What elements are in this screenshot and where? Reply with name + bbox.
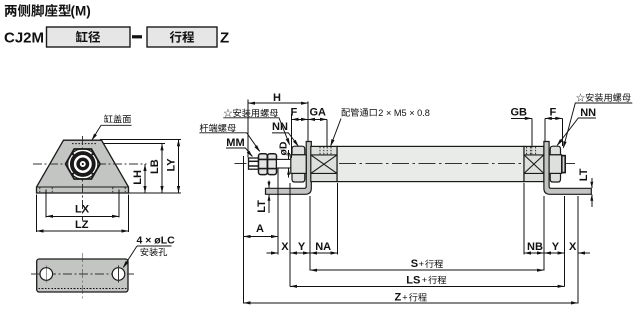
LY extension top xyxy=(100,138,181,140)
cap face dotted line xyxy=(72,143,96,145)
label 安装用螺母 right + leader xyxy=(576,93,630,102)
svg-text:GA: GA xyxy=(310,106,327,118)
svg-text:(M): (M) xyxy=(71,4,91,19)
svg-text:X: X xyxy=(281,241,289,253)
piston rod thread MM xyxy=(249,158,259,169)
foot plate top view xyxy=(37,259,128,292)
dim GB xyxy=(531,118,533,146)
dim LX xyxy=(46,215,119,217)
svg-text:GB: GB xyxy=(511,106,528,118)
mounting nut hexagon xyxy=(66,149,100,179)
port holes left (dotted) xyxy=(320,147,331,155)
foot bracket front view body xyxy=(37,140,129,193)
dim F left xyxy=(291,114,293,158)
port holes right (dotted) xyxy=(527,147,536,155)
dash separator xyxy=(132,35,142,38)
dim S+stroke xyxy=(310,269,544,271)
label 缸盖面 xyxy=(104,115,131,124)
dim LT left xyxy=(268,181,270,189)
dim A xyxy=(244,236,279,238)
rod end nut (pair) xyxy=(259,154,268,175)
dim Z+stroke xyxy=(244,302,579,304)
left foot bracket (side) xyxy=(266,142,312,195)
hidden hole lines in base band xyxy=(40,188,125,193)
dim LB xyxy=(161,143,163,193)
svg-text:LX: LX xyxy=(75,204,90,216)
dim F right xyxy=(561,118,563,146)
svg-text:F: F xyxy=(291,106,298,118)
cap cover (rear) xyxy=(524,146,544,181)
svg-text:NA: NA xyxy=(315,241,331,253)
mounting hole right xyxy=(112,268,125,281)
axis centerline xyxy=(235,163,247,165)
centerline horizontal xyxy=(33,163,147,165)
right foot bracket (side) xyxy=(544,142,591,195)
dim LS+stroke xyxy=(290,285,565,287)
svg-text:NN: NN xyxy=(580,107,596,119)
svg-text:LY: LY xyxy=(166,158,178,172)
leader 4xoLC xyxy=(137,245,172,247)
LZ extension lines xyxy=(36,195,38,233)
svg-text:+: + xyxy=(402,293,407,303)
plate centerline vertical xyxy=(81,253,83,299)
svg-text:F: F xyxy=(550,106,557,118)
svg-text:NB: NB xyxy=(527,241,543,253)
svg-text:H: H xyxy=(273,92,281,104)
stroke box 行程 xyxy=(147,27,217,47)
mounting nut NN left xyxy=(292,146,305,155)
title 两侧脚座型(M) xyxy=(5,4,71,17)
svg-text:Z: Z xyxy=(395,292,402,304)
label 配管通口2xM5x0.8 + leader xyxy=(342,108,377,117)
svg-text:Y: Y xyxy=(552,241,560,253)
dim row X Y NA xyxy=(267,252,279,254)
ground extension xyxy=(129,192,182,194)
mounting hole left xyxy=(40,268,53,281)
rear boss xyxy=(562,156,565,173)
extension lines xyxy=(243,156,245,304)
LX extension lines xyxy=(45,190,47,218)
corner dots xyxy=(72,153,74,155)
svg-text:2 × M5 × 0.8: 2 × M5 × 0.8 xyxy=(378,108,430,118)
label 安装孔 xyxy=(140,248,167,257)
svg-text:LT: LT xyxy=(578,168,590,181)
piston rod xyxy=(277,159,292,168)
svg-text:4 × øLC: 4 × øLC xyxy=(137,235,176,247)
svg-text:LH: LH xyxy=(132,170,144,185)
mounting nut NN right xyxy=(550,146,560,155)
svg-text:Y: Y xyxy=(298,241,306,253)
dim GA xyxy=(326,119,328,146)
dim H xyxy=(247,100,249,158)
svg-text:LZ: LZ xyxy=(75,219,89,231)
bore box 缸径 xyxy=(47,27,131,47)
plate centerline horizontal xyxy=(31,273,134,275)
svg-text:CJ2M: CJ2M xyxy=(4,30,44,47)
svg-text:X: X xyxy=(569,241,577,253)
label 杆端螺母 + leader xyxy=(200,124,236,132)
nut circles xyxy=(68,149,98,179)
centerline vertical xyxy=(82,136,84,221)
svg-text:Z: Z xyxy=(220,30,229,47)
dim LH xyxy=(144,164,146,193)
head cover (rod side) xyxy=(311,146,337,181)
svg-text:A: A xyxy=(256,223,264,235)
LB extension top xyxy=(104,142,166,144)
dim LY xyxy=(178,139,180,193)
svg-text:NN: NN xyxy=(272,121,288,133)
svg-text:S: S xyxy=(411,258,418,270)
svg-text:LB: LB xyxy=(149,159,161,174)
dim LT right xyxy=(591,178,593,188)
dim LZ xyxy=(37,230,129,232)
cylinder tube xyxy=(337,146,524,181)
hidden line xyxy=(39,288,127,290)
svg-text:MM: MM xyxy=(226,137,244,149)
dim row NB Y X xyxy=(524,252,544,254)
svg-text:LS: LS xyxy=(406,274,420,286)
leader 缸盖面 xyxy=(92,125,132,140)
label 安装用螺母 left + leader xyxy=(224,109,278,118)
svg-text:LT: LT xyxy=(256,200,268,213)
svg-text:+: + xyxy=(422,275,427,285)
svg-text:+: + xyxy=(419,259,424,269)
